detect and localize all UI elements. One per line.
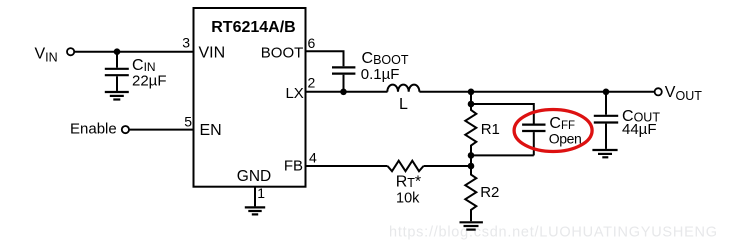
svg-text:GND: GND (237, 168, 271, 185)
svg-text:R1: R1 (481, 121, 500, 138)
pin number 4 (309, 150, 317, 166)
label R1 (481, 121, 500, 138)
IC U1 RT6214A/B box (194, 8, 306, 187)
label CBOOT value (361, 50, 409, 83)
pin label GND (237, 168, 271, 185)
node rail R1 junction dot (468, 89, 475, 96)
node rail COUT junction dot (603, 89, 610, 96)
pin label BOOT (261, 44, 304, 61)
terminal Enable circle (122, 126, 129, 133)
wire CFF bottom to node B (471, 154, 534, 156)
wire pin 2 LX to inductor (306, 91, 388, 93)
terminal VOUT label (665, 84, 702, 103)
svg-text:2: 2 (308, 75, 316, 91)
node A junction dot (R1 top / CFF top) (468, 101, 475, 108)
wire RT to node FB (424, 165, 472, 167)
svg-text:4: 4 (309, 150, 317, 166)
resistor R2 (465, 166, 476, 221)
svg-text:VOUT: VOUT (665, 84, 702, 103)
label RT value (396, 173, 421, 206)
wire pin 1 GND stem (254, 187, 256, 206)
pin label VIN (199, 44, 226, 61)
svg-text:10k: 10k (396, 191, 420, 207)
node B junction dot (R1 bottom) (468, 152, 475, 159)
label CIN value (132, 57, 167, 89)
watermark (389, 225, 718, 241)
node CIN tap junction dot (114, 48, 121, 55)
wire node B to node FB (470, 155, 472, 166)
svg-text:5: 5 (184, 114, 192, 130)
resistor RT (388, 161, 424, 172)
inductor L (387, 85, 419, 92)
node FB junction dot (468, 163, 475, 170)
pin number 2 (308, 75, 316, 91)
capacitor CFF (522, 125, 545, 156)
terminal VOUT circle (655, 88, 662, 95)
svg-text:CBOOT: CBOOT (362, 50, 409, 67)
pin number 1 (257, 185, 265, 201)
wire pin 6 BOOT (306, 51, 344, 66)
svg-text:VIN: VIN (35, 46, 58, 65)
label L (399, 96, 408, 113)
svg-text:RT*: RT* (396, 173, 421, 190)
wire pin 4 FB (306, 165, 388, 167)
red highlight ellipse around CFF (514, 110, 592, 152)
svg-text:6: 6 (308, 35, 316, 51)
svg-text:LX: LX (285, 85, 303, 102)
label CFF Open (549, 115, 582, 146)
svg-text:0.1µF: 0.1µF (361, 66, 400, 83)
ground (IC GND pin) (245, 207, 265, 214)
wire inductor to VOUT (419, 91, 654, 93)
label R2 (480, 184, 499, 201)
svg-text:1: 1 (257, 185, 265, 201)
svg-text:Enable: Enable (70, 121, 117, 138)
svg-text:VIN: VIN (199, 44, 226, 61)
svg-text:3: 3 (182, 35, 190, 51)
node CBOOT junction dot (340, 89, 347, 96)
wire Enable to pin 5 (129, 129, 194, 131)
terminal VIN label (35, 46, 58, 65)
svg-text:EN: EN (200, 122, 222, 139)
pin number 5 (184, 114, 192, 130)
svg-text:https://blog.csdn.net/LUOHUATI: https://blog.csdn.net/LUOHUATINGYUSHENG (389, 225, 718, 241)
resistor R1 (465, 104, 476, 155)
pin label FB (284, 158, 303, 175)
pin label LX (285, 85, 303, 102)
pin number 6 (308, 35, 316, 51)
svg-text:L: L (399, 96, 408, 113)
terminal Enable label (70, 121, 117, 138)
svg-text:44µF: 44µF (622, 121, 657, 138)
capacitor COUT (594, 92, 618, 149)
capacitor CIN (105, 52, 129, 91)
svg-text:22µF: 22µF (132, 72, 167, 89)
pin label EN (200, 122, 222, 139)
capacitor CBOOT (332, 67, 355, 91)
svg-text:RT6214A/B: RT6214A/B (211, 19, 295, 36)
svg-text:FB: FB (284, 158, 303, 175)
terminal VIN circle (67, 48, 74, 55)
wire node A to CFF top (471, 104, 534, 124)
wire VIN to pin 3 (74, 51, 193, 53)
IC title RT6214A/B (211, 19, 295, 36)
wire rail to node A (470, 92, 472, 104)
svg-text:R2: R2 (480, 184, 499, 201)
ground (R2) (460, 222, 483, 229)
ground (COUT) (592, 150, 617, 157)
pin number 3 (182, 35, 190, 51)
label COUT value (622, 108, 660, 138)
ground (CIN) (105, 92, 129, 100)
svg-text:BOOT: BOOT (261, 44, 304, 61)
svg-text:Open: Open (549, 131, 582, 147)
